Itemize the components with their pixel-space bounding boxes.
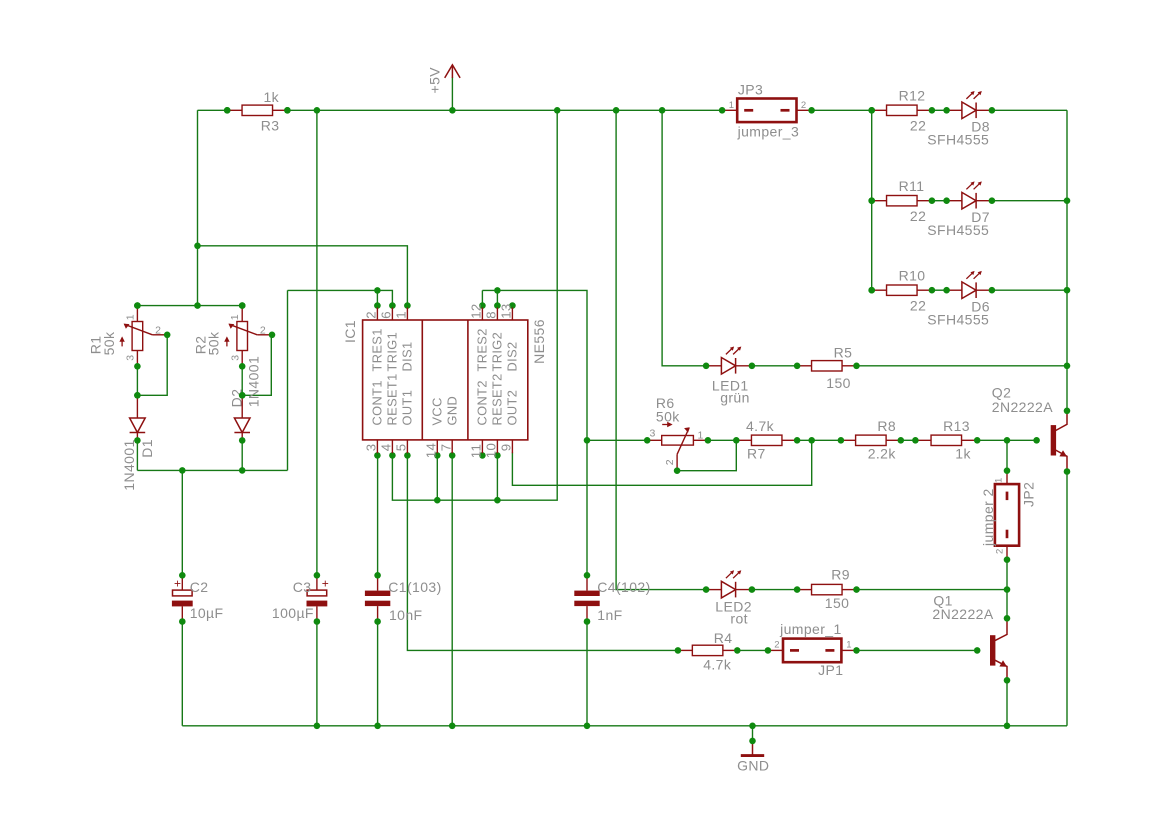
- svg-text:6: 6: [379, 311, 394, 319]
- transistor Q2 2N2222A: [1051, 408, 1071, 475]
- svg-text:RESET2: RESET2: [490, 373, 505, 425]
- svg-text:SFH4555: SFH4555: [927, 312, 989, 328]
- wire junction down to C2: [181, 470, 183, 575]
- wire C4/TRIG2 node to R6 pin3: [587, 439, 647, 441]
- svg-text:1: 1: [846, 640, 852, 651]
- junction dots VCC net: [434, 497, 501, 504]
- node R9 to JP2 column: [1004, 586, 1011, 593]
- capacitor C1 10nF: [365, 572, 390, 625]
- svg-text:grün: grün: [720, 390, 750, 406]
- pin names IC1 top row: [370, 328, 520, 371]
- diode D7 SFH4555 (IR LED): [943, 181, 995, 209]
- wire JP1 to Q1 base: [857, 649, 978, 651]
- svg-text:22: 22: [910, 118, 926, 134]
- wire D1/D2 cathode row: [137, 469, 287, 471]
- wire pin 5 (OUT1) down and right to R4: [407, 455, 678, 650]
- svg-text:150: 150: [826, 375, 851, 391]
- svg-text:DIS1: DIS1: [400, 341, 415, 371]
- wire bottom GND rail: [182, 725, 1067, 727]
- wire vertical feed for R11/R10 rows: [871, 110, 873, 290]
- wire R5 to right column: [857, 365, 1068, 367]
- svg-text:R12: R12: [899, 88, 926, 104]
- wire C2 to bottom rail: [181, 622, 183, 726]
- svg-text:C4(102): C4(102): [597, 579, 650, 595]
- svg-text:3: 3: [650, 428, 656, 440]
- wire C3 to bottom rail: [316, 622, 318, 726]
- svg-text:12: 12: [469, 303, 484, 318]
- wire R8 to R13: [901, 439, 916, 441]
- wire GND symbol stub: [752, 726, 754, 741]
- junction dots TRES/TRIG nets: [374, 287, 501, 294]
- wire D1 cathode down: [136, 441, 138, 470]
- capacitor C3 100uF: [307, 572, 328, 625]
- wire +5V supply stem: [451, 77, 453, 110]
- wire TRES1/TRIG1 net to pin 6: [288, 290, 393, 305]
- svg-text:C3: C3: [293, 579, 312, 595]
- wire Q2 base node down to JP2: [1006, 440, 1008, 470]
- junction dots R1/R2 top row: [134, 302, 245, 309]
- svg-text:3: 3: [125, 354, 137, 360]
- wire +5V rail: JP3 to R12: [812, 109, 872, 111]
- svg-text:OUT2: OUT2: [505, 390, 520, 426]
- wire stub to pin 2: [376, 290, 378, 305]
- potentiometer R1 50k: [119, 302, 170, 369]
- capacitor C2 10uF: [172, 572, 193, 625]
- op-amp U/IC1 NE556 timer box: [363, 308, 528, 454]
- svg-text:7: 7: [438, 443, 453, 451]
- wire +5V rail down to LED2 row: [616, 110, 706, 589]
- svg-text:13: 13: [499, 303, 514, 318]
- wire R3-left vertical to R1/R2 top: [197, 110, 199, 305]
- wire DIS1 net to pin 1: [198, 246, 408, 306]
- resistor R7 4.7k: [733, 435, 800, 445]
- svg-text:11: 11: [469, 444, 484, 459]
- ground GND symbol: [741, 738, 764, 756]
- resistor R4 4.7k: [675, 645, 741, 655]
- pin numbers IC1 top: [364, 303, 514, 318]
- svg-text:4.7k: 4.7k: [746, 418, 775, 434]
- wire R9 to JP2/Q1 column: [857, 589, 1008, 591]
- wire +5V rail: R3 to JP3: [287, 109, 722, 111]
- pin numbers IC1 bottom: [364, 443, 514, 458]
- wire R6 wiper return to R7 node: [677, 440, 736, 470]
- wire stub pin 14 (VCC): [436, 455, 438, 500]
- wire C4 to bottom rail: [586, 622, 588, 726]
- resistor R11 22: [868, 196, 935, 206]
- jumper JP1: [765, 639, 860, 663]
- svg-text:jumper 2: jumper 2: [980, 488, 996, 547]
- svg-text:5: 5: [394, 443, 409, 451]
- wire R1/R2 top: [137, 305, 242, 307]
- svg-text:100µF: 100µF: [272, 605, 314, 621]
- junction dots bottom rail: [314, 723, 1011, 730]
- svg-text:150: 150: [825, 595, 850, 611]
- svg-text:1: 1: [994, 477, 1005, 483]
- wire D8 to right column: [992, 109, 1067, 111]
- svg-text:Q2: Q2: [992, 385, 1011, 401]
- svg-text:JP1: JP1: [818, 662, 843, 678]
- svg-text:4.7k: 4.7k: [703, 656, 732, 672]
- svg-text:jumper_3: jumper_3: [737, 124, 800, 140]
- wire LED2 to R9: [752, 589, 797, 591]
- svg-text:jumper_1: jumper_1: [779, 621, 842, 637]
- svg-text:1: 1: [729, 100, 735, 111]
- svg-text:2: 2: [155, 325, 161, 337]
- resistor R10 22: [868, 285, 935, 295]
- svg-text:R7: R7: [747, 446, 766, 462]
- svg-text:R8: R8: [877, 418, 896, 434]
- svg-text:JP2: JP2: [1020, 482, 1036, 507]
- potentiometer R6 50k: [644, 422, 711, 474]
- wire stub to pin 12: [481, 290, 483, 305]
- wire +5V rail down to C3: [316, 110, 318, 575]
- svg-text:C1(103): C1(103): [388, 579, 441, 595]
- wire R4 to JP1: [737, 649, 768, 651]
- junction dots on +5V rail: [224, 107, 875, 114]
- jumper JP3: [719, 99, 815, 123]
- potentiometer R2 50k: [224, 302, 275, 369]
- svg-text:1k: 1k: [955, 446, 971, 462]
- svg-text:rot: rot: [730, 610, 748, 626]
- svg-text:TRIG2: TRIG2: [490, 332, 505, 372]
- LED LED1 (green): [703, 347, 755, 375]
- svg-text:9: 9: [499, 443, 514, 451]
- diode D6 SFH4555 (IR LED): [943, 271, 995, 299]
- svg-text:TRIG1: TRIG1: [385, 332, 400, 372]
- wire vertical to TRES1/TRIG1 net: [287, 290, 289, 470]
- svg-text:2: 2: [801, 100, 807, 111]
- svg-text:2N2222A: 2N2222A: [992, 399, 1053, 415]
- wire D6 to right column: [992, 289, 1067, 291]
- resistor R12 22: [868, 105, 935, 115]
- svg-text:2: 2: [774, 640, 780, 651]
- svg-text:22: 22: [910, 208, 926, 224]
- node Q1 base pin: [974, 647, 981, 654]
- wire D7 to right column: [992, 200, 1067, 202]
- svg-text:DIS2: DIS2: [505, 341, 520, 371]
- svg-text:R10: R10: [899, 268, 926, 284]
- wire stub pin 10 (RESET2): [496, 455, 498, 500]
- svg-text:50k: 50k: [206, 331, 222, 355]
- svg-text:CONT2: CONT2: [475, 380, 490, 425]
- svg-text:2.2k: 2.2k: [868, 446, 897, 462]
- svg-text:1N4001: 1N4001: [121, 439, 137, 490]
- wire R2 wiper return: [242, 335, 271, 396]
- svg-text:R11: R11: [899, 178, 925, 194]
- wire R12 to D8: [932, 109, 947, 111]
- svg-text:TRES2: TRES2: [475, 328, 490, 371]
- wire pin 3 (CONT1) down to C1: [377, 455, 379, 575]
- wire stub to pin 8: [496, 290, 498, 305]
- wire right column upper (to Q2 collector): [1066, 110, 1068, 411]
- wire pin 7 (GND) to bottom rail: [451, 455, 453, 725]
- wire R1 pin3 to D1 anode: [136, 366, 138, 397]
- svg-text:R9: R9: [831, 567, 850, 583]
- svg-text:2N2222A: 2N2222A: [932, 606, 993, 622]
- wire C1 to bottom rail: [377, 622, 379, 726]
- svg-text:10µF: 10µF: [190, 605, 224, 621]
- resistor R8 2.2k: [838, 435, 904, 445]
- wire right column lower (Q2 emitter to bottom rail): [1066, 472, 1068, 726]
- svg-text:1k: 1k: [264, 89, 280, 105]
- transistor Q1 2N2222A: [990, 615, 1010, 684]
- svg-text:2: 2: [994, 548, 1005, 554]
- wire R1 wiper return: [137, 335, 167, 396]
- wire R2 pin3 to D2 anode: [241, 366, 243, 397]
- LED LED2 (red): [703, 570, 755, 598]
- wire D2 cathode down: [241, 441, 243, 470]
- svg-text:10nF: 10nF: [389, 607, 423, 623]
- wire LED1 to R5: [752, 365, 797, 367]
- svg-text:+5V: +5V: [427, 67, 443, 94]
- svg-text:1: 1: [124, 314, 136, 320]
- resistor R9 150: [794, 584, 860, 594]
- resistor R3 1k: [224, 105, 291, 115]
- wire Q1 emitter to bottom rail: [1006, 680, 1008, 726]
- wire TRES2/TRIG2 net down to C4: [482, 290, 587, 575]
- diode D1 1N4001: [130, 395, 146, 443]
- diode D2 1N4001: [234, 395, 250, 443]
- svg-text:VCC: VCC: [430, 397, 445, 425]
- svg-text:D1: D1: [139, 439, 155, 458]
- svg-text:OUT1: OUT1: [400, 390, 415, 426]
- wire R10 to D6: [932, 289, 947, 291]
- wire R7 to R8: [797, 439, 841, 441]
- resistor R5 150: [794, 361, 860, 371]
- svg-text:50k: 50k: [101, 331, 117, 355]
- wire +5V rail: R3 left segment: [198, 109, 228, 111]
- junction dots R6/R7 row: [584, 437, 1011, 444]
- svg-text:C2: C2: [190, 579, 209, 595]
- svg-text:1nF: 1nF: [597, 607, 622, 623]
- resistor R13 1k: [912, 435, 980, 445]
- pin dots IC top: [374, 302, 516, 309]
- svg-text:1: 1: [394, 311, 409, 319]
- pin dots IC bottom: [374, 452, 501, 459]
- wire R13 to Q2 base: [977, 439, 1036, 441]
- wire RESET1/VCC/RESET2 net to +5V rail: [392, 110, 557, 500]
- capacitor C4 1nF: [574, 572, 599, 625]
- svg-text:1N4001: 1N4001: [246, 356, 262, 407]
- svg-text:R3: R3: [261, 118, 280, 134]
- svg-text:+: +: [322, 577, 329, 591]
- junction dots wiper/anode nodes: [134, 392, 245, 399]
- wire JP2 pin2 down to Q1 collector: [1006, 560, 1008, 619]
- svg-text:SFH4555: SFH4555: [927, 132, 989, 148]
- node LED1 row to right column: [1064, 363, 1071, 370]
- wire R6 pin1 to R7: [708, 439, 736, 441]
- svg-text:TRES1: TRES1: [370, 328, 385, 371]
- svg-text:4: 4: [379, 443, 394, 451]
- svg-text:1: 1: [698, 430, 704, 442]
- svg-text:IC1: IC1: [342, 320, 358, 343]
- junction dots diode cathode row: [179, 467, 246, 474]
- diode D8 SFH4555 (IR LED): [943, 91, 995, 119]
- pin names IC1 bottom row: [370, 373, 520, 425]
- svg-text:R13: R13: [943, 418, 970, 434]
- svg-text:NE556: NE556: [531, 319, 547, 364]
- svg-text:1: 1: [229, 314, 241, 320]
- svg-text:RESET1: RESET1: [385, 373, 400, 425]
- svg-text:R5: R5: [834, 345, 853, 361]
- junction dots D6 row: [868, 287, 1070, 294]
- jumper JP2: [995, 467, 1019, 563]
- junction dots D7 row: [868, 197, 1070, 204]
- svg-text:GND: GND: [737, 758, 769, 774]
- svg-text:2: 2: [364, 311, 379, 319]
- svg-text:GND: GND: [445, 396, 460, 426]
- svg-text:50k: 50k: [656, 409, 680, 425]
- svg-text:8: 8: [484, 311, 499, 319]
- node DIS1/R3 junction: [194, 243, 201, 250]
- wire pin 9 (OUT2) to R7/R8 node: [512, 440, 811, 485]
- svg-text:3: 3: [230, 354, 242, 360]
- svg-text:10: 10: [484, 443, 499, 458]
- wire +5V rail down to LED1 row: [662, 110, 706, 365]
- svg-text:+: +: [174, 577, 181, 591]
- svg-text:14: 14: [424, 443, 439, 458]
- svg-text:3: 3: [364, 443, 379, 451]
- svg-text:SFH4555: SFH4555: [927, 222, 989, 238]
- svg-text:CONT1: CONT1: [370, 380, 385, 425]
- power +5V symbol: [445, 65, 460, 78]
- svg-text:R4: R4: [714, 630, 733, 646]
- svg-text:2: 2: [664, 459, 676, 465]
- svg-text:2: 2: [260, 325, 266, 337]
- node Q2 base pin: [1033, 437, 1040, 444]
- svg-text:JP3: JP3: [738, 82, 763, 98]
- wire R11 to D7: [932, 200, 947, 202]
- svg-text:22: 22: [910, 298, 926, 314]
